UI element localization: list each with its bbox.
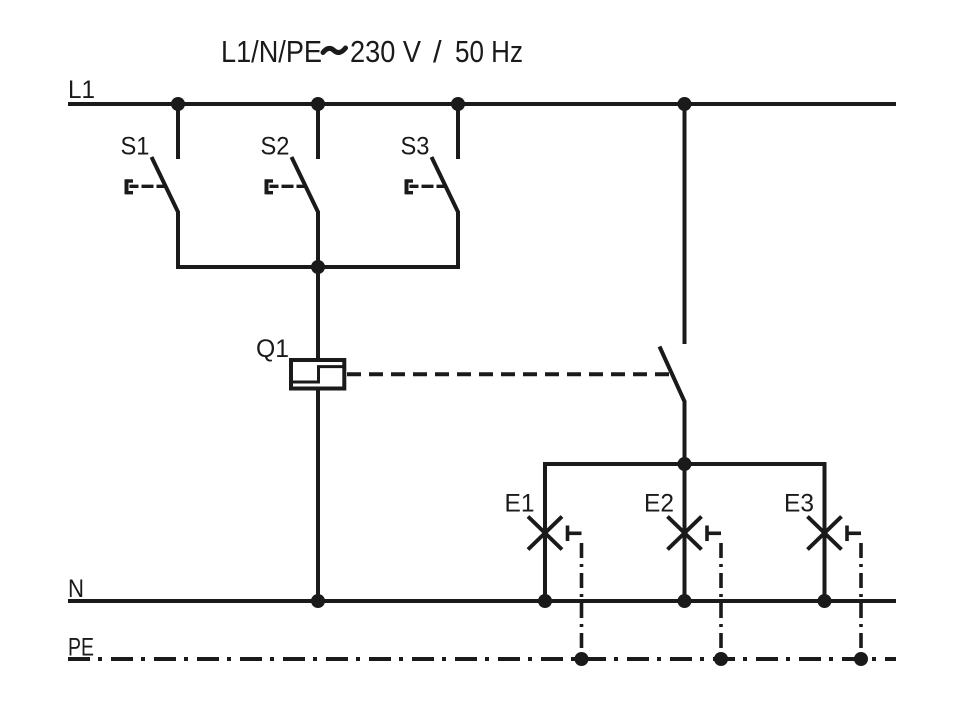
wire pushbutton bus [176,265,460,269]
pushbutton S1 [121,104,179,267]
pushbutton S2 [261,104,319,267]
relay coil Q1 [256,335,344,389]
node N/E1 [538,594,552,608]
svg-text:E1: E1 [505,490,535,518]
node L1/S1 [171,97,185,111]
node PE/E1 [575,652,589,666]
svg-text:L1/N/PE: L1/N/PE [221,34,322,69]
wire N bus [68,599,896,603]
svg-text:L1: L1 [68,76,95,104]
node PE/E2 [714,652,728,666]
svg-text:/: / [433,34,442,69]
wire L1 bus [68,102,896,106]
node L1/Q1-contact [678,97,692,111]
node L1/S2 [311,97,325,111]
node PE/E3 [854,652,868,666]
lamp E3 [784,464,861,659]
lamp E2 [644,464,721,659]
wire Q1 coil to N [316,388,320,601]
svg-text:230 V: 230 V [350,34,421,69]
label supply title [221,34,523,69]
wire mechanical link Q1 (dashed) [347,372,670,376]
pushbutton S3 [401,104,459,267]
wire PE bus (dash-dot) [68,657,896,661]
node bus/Q1 [311,260,325,274]
svg-text:E3: E3 [784,490,814,518]
node N/E3 [818,594,832,608]
svg-text:S2: S2 [261,133,290,161]
node L1/S3 [451,97,465,111]
svg-text:S1: S1 [121,133,150,161]
svg-text:Q1: Q1 [256,335,289,363]
svg-text:S3: S3 [401,133,430,161]
svg-text:50 Hz: 50 Hz [455,34,523,69]
node lamp bus [678,457,692,471]
svg-text:E2: E2 [644,490,674,518]
node N/Q1 [311,594,325,608]
svg-text:N: N [68,575,84,603]
contact Q1 switch [660,104,685,464]
node N/E2 [678,594,692,608]
lamp E1 [505,464,582,659]
wire lamp bus [543,462,827,466]
wire bus to Q1 coil [316,267,320,361]
